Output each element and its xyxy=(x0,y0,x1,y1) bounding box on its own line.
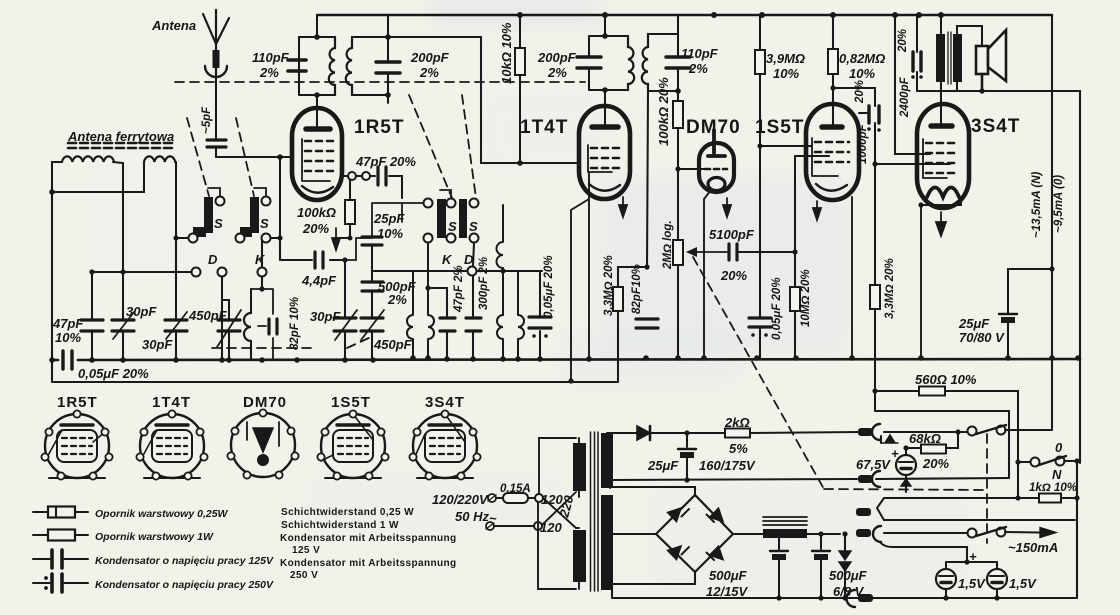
inductor IF2 coil A xyxy=(407,271,413,358)
wire antenna drop xyxy=(215,75,217,139)
plug E (filament return) xyxy=(847,590,874,607)
capacitor 0,05uF 20% (1S5T) xyxy=(749,318,771,358)
switch filament on/off xyxy=(968,527,1057,538)
svg-text:Opornik warstwowy 1W: Opornik warstwowy 1W xyxy=(95,531,214,543)
svg-text:450pF: 450pF xyxy=(188,308,228,323)
capacitor 82pF 10% xyxy=(636,319,658,328)
svg-text:70/80 V: 70/80 V xyxy=(959,330,1005,345)
resistor 0,82MOhm xyxy=(828,15,838,126)
tank3 loop xyxy=(589,36,628,90)
transformer output secondary xyxy=(953,34,962,82)
resistor 68kOhm xyxy=(903,432,958,454)
svg-text:10MΩ 20%: 10MΩ 20% xyxy=(800,269,812,327)
capacitor 1000pF 20% xyxy=(830,85,880,164)
capacitor 82pF osc xyxy=(251,240,277,360)
ferrite antenna rod (dashed) xyxy=(68,143,172,148)
svg-text:25pF: 25pF xyxy=(373,211,405,226)
svg-text:1R5T: 1R5T xyxy=(354,117,404,138)
socket 1T4T xyxy=(136,410,207,479)
svg-text:2kΩ: 2kΩ xyxy=(724,415,750,430)
svg-text:110pF: 110pF xyxy=(681,46,719,61)
node 30pF top xyxy=(120,269,125,274)
inductor tank1 coil xyxy=(329,37,335,95)
wire: top B+ bus xyxy=(317,14,1052,16)
svg-text:450pF: 450pF xyxy=(373,337,413,352)
svg-text:10%: 10% xyxy=(773,66,799,81)
node B: ground bus junction dots xyxy=(49,355,1081,363)
svg-text:12/15V: 12/15V xyxy=(706,584,749,599)
tank1 loop xyxy=(299,37,335,95)
capacitor 25uF 70/80V xyxy=(999,266,1055,358)
svg-text:100kΩ 20%: 100kΩ 20% xyxy=(656,77,671,146)
svg-text:Schichtwiderstand 0,25 W: Schichtwiderstand 0,25 W xyxy=(281,507,414,518)
wire bottom return xyxy=(612,584,1077,598)
svg-text:500μF: 500μF xyxy=(829,568,868,583)
wire tank4 top to bus xyxy=(677,15,679,34)
svg-text:DM70: DM70 xyxy=(243,394,287,411)
wire tank1 to 1R5T anode xyxy=(316,95,318,126)
wire primary bar links xyxy=(576,438,579,589)
wire grid row 1R5T xyxy=(92,271,191,273)
svg-text:25μF: 25μF xyxy=(958,316,990,331)
trimmer 30pF second xyxy=(165,238,187,360)
inductor IF3 secondary coil A xyxy=(497,315,503,358)
capacitor 25pF xyxy=(362,237,382,245)
wire 1S5T right pin down xyxy=(851,197,853,359)
switch block S2 bar A xyxy=(437,199,446,238)
antenna xyxy=(203,10,229,77)
svg-text:D: D xyxy=(464,252,474,267)
svg-text:200pF: 200pF xyxy=(410,50,450,65)
capacitor 110pF IF xyxy=(666,57,690,68)
svg-text:560Ω 10%: 560Ω 10% xyxy=(915,372,977,387)
node tank2 bottom xyxy=(385,92,391,98)
transformer power core xyxy=(591,432,599,591)
plug B (90V tap) xyxy=(858,471,880,487)
svg-text:30pF: 30pF xyxy=(126,304,157,319)
wire S1 row xyxy=(176,237,280,239)
wire: right edge to bottom corner xyxy=(1076,463,1078,598)
capacitor 0,05uF 20% (IF2) xyxy=(529,272,551,359)
svg-text:K: K xyxy=(442,252,453,267)
fuse 0,15A xyxy=(496,493,534,503)
transformer power primary winding xyxy=(573,443,586,491)
svg-text:Kondensator o napięciu pracy 2: Kondensator o napięciu pracy 250V xyxy=(95,579,274,591)
svg-text:~: ~ xyxy=(489,511,497,526)
resistor 100kOhm 1R5T xyxy=(336,173,355,240)
resistor 3,3MOhm 20% (3S4T grid) xyxy=(870,164,880,411)
legend capacitor 125V xyxy=(33,550,88,568)
wire DM70 grid to 100k column xyxy=(678,168,706,170)
svg-text:2MΩ log.: 2MΩ log. xyxy=(662,220,674,270)
svg-text:~150mA: ~150mA xyxy=(1008,540,1058,555)
switch block S1 bar A xyxy=(204,197,213,233)
socket 3S4T xyxy=(409,410,480,479)
svg-text:2%: 2% xyxy=(419,65,439,80)
svg-text:Antena ferrytowa: Antena ferrytowa xyxy=(67,129,174,144)
wire filament battery link xyxy=(880,542,997,565)
wire 3S4T filament down xyxy=(920,205,922,358)
resistor 10MOhm 20% xyxy=(790,156,829,358)
svg-text:68kΩ: 68kΩ xyxy=(909,431,941,446)
inductor IF2 coil B xyxy=(425,243,434,358)
wire plug to 68k xyxy=(880,436,882,443)
wire 500pF to trimmer xyxy=(371,291,373,318)
svg-text:20%: 20% xyxy=(720,268,747,283)
dashed tuning gang lines xyxy=(175,82,987,543)
svg-text:3,3MΩ 20%: 3,3MΩ 20% xyxy=(603,255,615,316)
svg-text:1,5V: 1,5V xyxy=(1009,576,1037,591)
svg-text:20%: 20% xyxy=(897,29,909,53)
svg-text:S: S xyxy=(448,219,457,234)
wire output transformer leads xyxy=(941,15,982,126)
transformer tap contacts xyxy=(534,494,543,530)
svg-text:4,4pF: 4,4pF xyxy=(301,273,337,288)
capacitor 200pF xyxy=(376,62,400,73)
wire to 4.4pF xyxy=(279,157,281,260)
svg-text:1S5T: 1S5T xyxy=(755,117,804,138)
svg-text:5100pF: 5100pF xyxy=(709,227,755,242)
capacitor 47pF 2% xyxy=(428,288,455,359)
wire 1T4T cathode drops xyxy=(571,172,589,381)
svg-text:10%: 10% xyxy=(377,226,403,241)
resistor 10kOhm xyxy=(515,15,525,163)
switch S1 contacts xyxy=(189,197,271,243)
wire secondary mid tap xyxy=(609,480,611,488)
wire S2 top hook xyxy=(440,190,451,198)
wire secondary top lead xyxy=(607,432,637,434)
svg-text:300pF 2%: 300pF 2% xyxy=(478,257,490,310)
switch block S2 bar B xyxy=(459,199,467,238)
wire 25pF down xyxy=(371,245,373,281)
svg-text:82pF10%: 82pF10% xyxy=(631,264,643,314)
node A: bus junction dots xyxy=(517,12,944,18)
capacitor 47pF 10% xyxy=(81,272,103,360)
svg-text:S: S xyxy=(469,219,478,234)
svg-text:~5pF: ~5pF xyxy=(201,106,213,134)
capacitor 300pF 2% xyxy=(466,276,481,359)
trimmer 450pF first xyxy=(217,277,241,360)
node S1-K junction xyxy=(277,235,282,240)
svg-text:120/220V: 120/220V xyxy=(432,492,489,507)
wire tank2 top to 1T4T grid row xyxy=(388,37,579,163)
svg-text:47pF: 47pF xyxy=(52,316,84,331)
capacitor 5100pF xyxy=(729,244,798,260)
svg-text:3S4T: 3S4T xyxy=(971,116,1020,137)
svg-text:10%: 10% xyxy=(55,330,81,345)
resistor 1kOhm 10% xyxy=(1015,462,1079,503)
svg-text:2%: 2% xyxy=(259,65,279,80)
legend resistor 1W xyxy=(33,530,88,541)
svg-text:250 V: 250 V xyxy=(290,570,318,581)
wire: right edge below bus xyxy=(1079,358,1081,463)
svg-text:0,05μF 20%: 0,05μF 20% xyxy=(543,255,555,318)
svg-text:D: D xyxy=(208,252,218,267)
svg-text:67,5V: 67,5V xyxy=(856,457,891,472)
tube 1T4T xyxy=(579,106,630,199)
node antenna/4.4pF junction xyxy=(277,154,283,160)
svg-text:2%: 2% xyxy=(688,61,708,76)
trimmer 450pF (osc) xyxy=(361,310,384,360)
inductor ferrite coil 1 xyxy=(62,156,114,162)
svg-text:30pF: 30pF xyxy=(142,337,173,352)
svg-text:10kΩ 10%: 10kΩ 10% xyxy=(499,22,514,84)
svg-text:1T4T: 1T4T xyxy=(152,394,191,411)
wire DM70 to ground bus xyxy=(704,190,711,358)
wire antenna coupling to 1R5T xyxy=(216,156,292,158)
inductor osc coil xyxy=(244,289,251,360)
svg-text:160/175V: 160/175V xyxy=(699,458,756,473)
inductor IF3 secondary coil B xyxy=(518,271,524,358)
svg-text:0,82MΩ: 0,82MΩ xyxy=(839,51,885,66)
tube 1S5T xyxy=(806,104,868,200)
svg-text:0,15A: 0,15A xyxy=(500,483,531,495)
inductor tank3 coil xyxy=(628,36,634,90)
svg-text:Antena: Antena xyxy=(151,18,196,33)
wire tank1 to bus xyxy=(316,15,318,37)
wire mains to primary xyxy=(494,492,576,528)
node B+ xyxy=(684,430,689,435)
svg-text:+: + xyxy=(891,446,899,461)
svg-text:10%: 10% xyxy=(849,66,875,81)
svg-text:Kondensator o napięciu pracy 1: Kondensator o napięciu pracy 125V xyxy=(95,555,274,567)
wire: AVC line B xyxy=(52,381,618,383)
wire: left edge vertical xyxy=(51,192,53,382)
battery 1,5V cell A xyxy=(936,562,956,601)
svg-text:Kondensator mit Arbeitsspannun: Kondensator mit Arbeitsspannung xyxy=(280,533,456,544)
arrow DM70 filament xyxy=(723,198,731,217)
capacitor 110pF xyxy=(288,60,306,71)
tube 3S4T xyxy=(917,104,969,208)
capacitor 500uF 12/15V xyxy=(770,531,788,600)
wire IF3 grid row xyxy=(372,270,542,272)
wire tank3 to 1T4T anode xyxy=(604,90,606,124)
svg-text:1T4T: 1T4T xyxy=(520,117,568,138)
wire: main ground bus xyxy=(52,359,1080,360)
svg-text:S: S xyxy=(260,216,269,231)
node 47pF top xyxy=(89,269,94,274)
wire bridge AC feeds xyxy=(607,487,695,584)
inductor filter choke xyxy=(763,517,840,538)
capacitor 500pF 2% xyxy=(362,282,383,291)
arrow 1S5T filament xyxy=(813,201,821,220)
capacitor 0,05uF 20% (bus inline) xyxy=(63,351,72,369)
svg-text:110pF: 110pF xyxy=(252,50,290,65)
speaker xyxy=(976,30,1006,94)
svg-text:Schichtwiderstand 1 W: Schichtwiderstand 1 W xyxy=(281,520,399,531)
arrow 1R5T filament xyxy=(332,228,340,250)
transformer output core xyxy=(948,32,951,84)
battery 1,5V cell B xyxy=(987,562,1007,601)
svg-text:1kΩ 10%: 1kΩ 10% xyxy=(1029,482,1077,494)
wire B- bus xyxy=(610,478,1009,480)
capacitor 500uF 6/8V xyxy=(812,531,830,600)
wire S1 top hooks xyxy=(208,188,266,196)
svg-text:20%: 20% xyxy=(922,456,949,471)
contact mains/battery switch xyxy=(968,425,1053,436)
wire tank2 top to bus xyxy=(387,15,389,37)
wire 3S4T filament return loop xyxy=(921,194,961,205)
plug D (filament line) xyxy=(856,526,967,542)
resistor 560 Ohm 10% xyxy=(872,387,1018,463)
transformer power secondary winding xyxy=(601,433,613,488)
svg-text:1S5T: 1S5T xyxy=(331,394,371,411)
transformer output primary xyxy=(936,34,945,82)
svg-text:5%: 5% xyxy=(729,441,748,456)
switch block S1 bar B xyxy=(250,197,259,233)
contact D row xyxy=(192,268,267,277)
svg-text:100kΩ: 100kΩ xyxy=(297,205,336,220)
svg-text:3,9MΩ: 3,9MΩ xyxy=(766,51,805,66)
wire ferrite coil2 terminals xyxy=(52,162,176,272)
wire tank2 bottom stub xyxy=(387,95,389,103)
svg-text:2400pF: 2400pF xyxy=(899,76,911,118)
pointer triangle A xyxy=(882,435,898,443)
svg-text:2%: 2% xyxy=(547,65,567,80)
legend capacitor 250V xyxy=(33,574,88,592)
svg-text:50 Hz: 50 Hz xyxy=(455,509,489,524)
inductor IF3 primary coil xyxy=(497,205,503,315)
capacitor 4,4pF xyxy=(280,238,372,268)
svg-text:30pF: 30pF xyxy=(310,309,341,324)
tube DM70 xyxy=(699,130,734,192)
plug A (anode battery +) xyxy=(858,424,967,440)
node tank3 top xyxy=(602,33,608,39)
socket 1S5T xyxy=(317,410,388,479)
svg-text:0,05μF 20%: 0,05μF 20% xyxy=(78,366,149,381)
svg-text:20%: 20% xyxy=(302,221,329,236)
tank2 loop xyxy=(352,37,388,95)
inductor tank4 coil xyxy=(642,34,648,91)
node tank1 bottom xyxy=(314,92,320,98)
svg-text:500μF: 500μF xyxy=(709,568,748,583)
battery 67,5V xyxy=(896,448,916,492)
svg-text:DM70: DM70 xyxy=(686,117,741,138)
node trimmer 30pF-2 top xyxy=(173,235,178,240)
wire filament return loop xyxy=(875,411,1009,478)
resistor 3,9MOhm xyxy=(755,15,812,318)
wire: top bus right drop xyxy=(1051,15,1053,430)
svg-text:~13,5mA (N): ~13,5mA (N) xyxy=(1031,171,1043,238)
node 68k tap xyxy=(955,429,960,434)
svg-text:82pF 10%: 82pF 10% xyxy=(289,297,301,350)
capacitor 2400pF 20% xyxy=(911,15,923,91)
node IF3 xyxy=(500,268,505,273)
diode D1 xyxy=(637,426,687,440)
svg-text:Kondensator mit Arbeitsspannun: Kondensator mit Arbeitsspannung xyxy=(280,558,456,569)
svg-text:120: 120 xyxy=(540,520,562,535)
arrow 3S4T anode current xyxy=(936,212,946,236)
svg-text:0: 0 xyxy=(1055,440,1063,455)
svg-text:K: K xyxy=(255,252,266,267)
diode surge (double) xyxy=(839,531,851,600)
inductor ferrite coil 2 xyxy=(144,156,175,162)
wire 47pF row from 1R5T xyxy=(348,172,402,198)
rectifier bridge xyxy=(656,495,733,572)
svg-text:6/8 V: 6/8 V xyxy=(833,584,865,599)
svg-text:N: N xyxy=(1052,467,1062,482)
node tank4 cap bottom xyxy=(675,88,681,94)
wire ferrite coil1 terminals xyxy=(52,162,123,272)
node ferrite junction xyxy=(49,189,55,195)
switch O/N xyxy=(1015,456,1079,467)
potentiometer 2MOhm log xyxy=(673,240,727,358)
trimmer 30pF (osc) xyxy=(334,257,357,360)
wire 3S4T grid feed xyxy=(895,15,930,154)
mains input terminals xyxy=(486,494,496,530)
svg-text:Opornik warstwowy 0,25W: Opornik warstwowy 0,25W xyxy=(95,508,229,520)
svg-text:47pF 2%: 47pF 2% xyxy=(453,265,465,313)
inductor tank2 coil xyxy=(346,37,352,95)
wire K to 4.4pF node xyxy=(279,238,281,260)
tank4 loop xyxy=(648,34,678,91)
svg-text:1000pF: 1000pF xyxy=(857,123,869,164)
svg-text:3S4T: 3S4T xyxy=(425,394,465,411)
wire B+ to switch xyxy=(687,432,860,433)
svg-text:47pF 20%: 47pF 20% xyxy=(355,154,416,169)
wire tank3 to bus xyxy=(604,15,606,36)
node tank1 top xyxy=(314,34,320,40)
wire: speaker return to right edge xyxy=(982,91,1080,358)
node 10k bottom xyxy=(517,160,523,166)
svg-text:125 V: 125 V xyxy=(292,545,320,556)
legend resistor 0,25W xyxy=(33,507,88,518)
svg-text:3,3MΩ 20%: 3,3MΩ 20% xyxy=(884,258,896,319)
trimmer 30pF xyxy=(112,272,134,360)
arrow 1T4T filament xyxy=(619,197,627,217)
wire anode row 3S4T xyxy=(917,90,982,92)
svg-text:2%: 2% xyxy=(387,292,407,307)
resistor 3,3MOhm (DM70 grid) xyxy=(613,264,650,382)
socket DM70 xyxy=(227,409,298,478)
box 25pF xyxy=(372,203,423,236)
wire tank4 left down to 82pF node xyxy=(647,91,648,267)
svg-text:20%: 20% xyxy=(854,80,866,104)
wire 3S4T grid2 row xyxy=(875,163,950,165)
capacitor 47pF 20% xyxy=(378,167,386,185)
switch S2 contacts xyxy=(424,199,479,243)
svg-text:0,05μF 20%: 0,05μF 20% xyxy=(771,277,783,340)
svg-text:~9,5mA (0): ~9,5mA (0) xyxy=(1053,175,1065,233)
svg-text:1R5T: 1R5T xyxy=(57,394,98,411)
node tank2 top xyxy=(385,34,391,40)
resistor 2kOhm xyxy=(725,429,750,438)
capacitor 25uF 160/175V xyxy=(678,433,696,483)
svg-text:200pF: 200pF xyxy=(537,50,577,65)
node tank3 bottom xyxy=(602,87,608,93)
wire bridge DC out xyxy=(733,533,763,535)
svg-text:25μF: 25μF xyxy=(647,458,679,473)
socket 1R5T xyxy=(41,410,112,479)
svg-text:S: S xyxy=(214,216,223,231)
capacitor ~5pF xyxy=(207,140,226,157)
svg-text:+: + xyxy=(969,549,977,564)
contact IF3 xyxy=(468,267,477,276)
resistor 100kOhm DM70 xyxy=(673,91,683,240)
wire primary frame xyxy=(538,438,576,589)
tube 1R5T xyxy=(292,108,350,200)
svg-text:1,5V: 1,5V xyxy=(958,576,986,591)
capacitor 200pF IF xyxy=(577,57,601,68)
plug C (90V battery) xyxy=(856,498,1075,520)
